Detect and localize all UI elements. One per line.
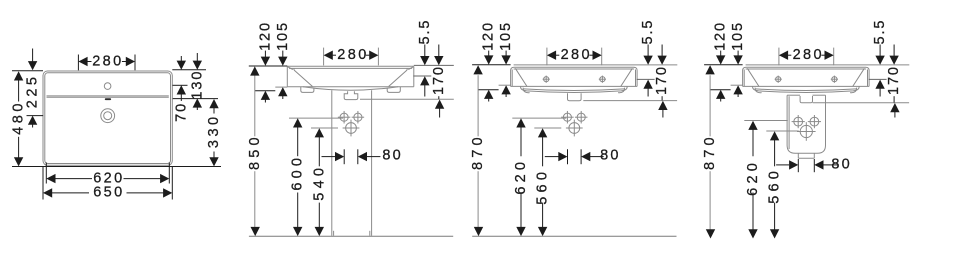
floor line <box>472 235 676 237</box>
basin right edge <box>413 66 415 86</box>
drain tab <box>800 96 812 103</box>
dim 870 line <box>709 75 711 136</box>
dim 280 extension lines <box>323 48 325 66</box>
basin skirt inner line <box>756 89 857 91</box>
wall fixing hole left <box>340 113 348 121</box>
view 1: bottom extension line <box>12 166 221 168</box>
view 1: dim 280 arrows <box>78 57 87 66</box>
siphon box drain stub <box>798 153 814 158</box>
view 1: dim 620 extension ticks <box>45 163 47 184</box>
dim 170 bottom arrow <box>438 96 440 99</box>
dim 850 line <box>254 75 256 136</box>
dim 105 bottom arrow and extension <box>278 87 287 96</box>
dim 600 extension line <box>289 117 343 119</box>
rim lower extension line <box>413 75 431 77</box>
svg-text:105: 105 <box>498 21 514 51</box>
dim 560 line and arrows <box>538 128 547 137</box>
basin skirt right lip <box>850 88 857 93</box>
dim 170 line and arrows <box>893 45 895 57</box>
drain hole <box>569 123 580 134</box>
top-left extension line <box>249 65 287 67</box>
dim 80 line and arrows <box>322 156 336 158</box>
dim 5.5 bottom arrow <box>643 80 652 89</box>
siphon box <box>787 95 825 153</box>
dim 120 line and arrows <box>264 51 266 57</box>
svg-text:870: 870 <box>470 133 486 170</box>
dim 5.5 bottom arrow <box>875 80 884 89</box>
svg-text:105: 105 <box>275 21 291 51</box>
dim 850 arrows <box>250 66 259 75</box>
dim 105 bottom arrow and extension <box>733 85 742 94</box>
view 1: faucet hole extension line <box>173 84 188 86</box>
svg-text:70: 70 <box>173 102 189 122</box>
view 1: dim 480 line and arrows <box>14 71 23 80</box>
dim 560 line and arrows <box>770 131 779 140</box>
view 1: washbasin top view outline <box>43 71 172 165</box>
dim 105 line and arrows <box>737 51 739 57</box>
basin front fixing hole right <box>832 77 837 82</box>
pedestal pipe foot lines <box>333 231 335 236</box>
basin left edge <box>286 66 288 86</box>
dim 120 bottom arrow and extension <box>484 90 493 99</box>
dim 540 line and arrows <box>315 128 324 137</box>
svg-text:620: 620 <box>745 159 761 196</box>
view 1: drain outer circle <box>101 109 115 123</box>
dim 170 line and arrows <box>661 45 663 57</box>
wall fixing hole right <box>354 113 362 121</box>
view 1: drain inner circle <box>104 112 112 120</box>
svg-text:130: 130 <box>189 70 205 100</box>
svg-text:170: 170 <box>431 65 447 95</box>
view 1: drain center extension line <box>27 115 44 117</box>
basin inner bowl walls <box>294 70 312 86</box>
svg-text:280: 280 <box>561 47 592 63</box>
svg-text:540: 540 <box>311 164 327 201</box>
dim 540 extension line <box>311 127 338 129</box>
svg-text:80: 80 <box>831 156 852 172</box>
dim 600 line and arrows <box>293 118 302 127</box>
drain tab bottom extension line <box>360 98 454 100</box>
siphon box top line <box>787 94 800 96</box>
dim 5.5 line and arrow <box>424 45 426 57</box>
dim 170 bottom arrow <box>893 96 895 102</box>
basin rim top line <box>287 65 414 67</box>
drain tab <box>568 93 582 101</box>
view 1: dim 650 extension lines <box>42 167 44 200</box>
floor line <box>249 235 453 237</box>
wall fixing hole right <box>810 117 819 126</box>
dim 80 line and arrows <box>545 156 559 158</box>
wall fixing hole right <box>577 113 585 121</box>
svg-text:280: 280 <box>793 47 824 63</box>
dim 120 bottom arrow and extension <box>261 91 270 100</box>
svg-text:480: 480 <box>11 100 27 135</box>
view 1: dim 70 line and arrows <box>180 56 182 61</box>
basin underside skirt <box>753 86 860 92</box>
dim 620 extension line <box>744 120 788 122</box>
dim 280 extension lines <box>546 48 548 66</box>
basin bottom edge <box>287 86 414 88</box>
basin skirt inner line <box>524 89 625 91</box>
basin back rim line <box>746 64 910 66</box>
svg-text:600: 600 <box>290 154 306 191</box>
basin underside curve <box>303 87 398 91</box>
basin skirt left lip <box>755 88 762 93</box>
dim 280 arrows <box>779 51 788 60</box>
dim 170 line and arrows <box>438 45 440 57</box>
svg-text:280: 280 <box>92 53 123 69</box>
top-right extension line <box>414 64 454 66</box>
basin front fixing hole right <box>600 77 605 82</box>
dim 80 extension ticks <box>343 149 345 164</box>
svg-text:170: 170 <box>886 65 902 95</box>
view 1: top-right extension line <box>172 69 206 71</box>
svg-text:120: 120 <box>481 21 497 51</box>
view 1: dim 225 line and arrows <box>32 49 34 62</box>
drain tab bottom extension line <box>583 100 677 102</box>
view 1: deck line (double) <box>47 95 169 97</box>
view 1: faucet hole <box>104 83 111 90</box>
dim 280 arrows <box>324 51 333 60</box>
dim 560 extension line <box>766 130 799 132</box>
svg-text:330: 330 <box>206 113 222 148</box>
dim 80 line and arrows <box>776 164 789 166</box>
basin left edge <box>510 71 512 87</box>
basin skirt right lip <box>618 88 625 93</box>
dim 870 arrows <box>473 65 482 74</box>
pedestal pipe right edge <box>371 90 373 236</box>
basin edge inner lines <box>511 70 513 87</box>
dim 120 bottom arrow and extension <box>716 90 725 99</box>
basin inner bowl walls <box>515 68 527 86</box>
dim 620 extension line <box>512 117 566 119</box>
drain hole <box>346 123 357 134</box>
basin left edge <box>742 71 744 87</box>
basin top corner chamfers <box>288 67 293 70</box>
dim 105 line and arrows <box>505 51 507 57</box>
basin back rim line <box>514 64 678 66</box>
basin bottom edge <box>511 85 637 87</box>
basin underside foot left <box>301 87 314 93</box>
dim 870 line <box>477 75 479 136</box>
drain hole <box>800 125 812 137</box>
svg-text:80: 80 <box>382 148 403 164</box>
basin rim top line <box>743 67 870 70</box>
dim 170 bottom arrow <box>661 96 663 100</box>
dim 105 line and arrows <box>282 51 284 57</box>
svg-text:170: 170 <box>654 65 670 95</box>
top-left extension line <box>704 64 743 66</box>
view 1: dim 620 line and arrows <box>46 174 55 183</box>
dim 5.5 line and arrow <box>879 45 881 57</box>
svg-text:560: 560 <box>767 167 783 204</box>
basin rim top line <box>511 67 637 70</box>
svg-text:560: 560 <box>535 168 551 205</box>
dim 620 line and arrows <box>516 118 525 127</box>
view 1: dim 650 line and arrows <box>43 188 52 197</box>
basin underside skirt <box>521 86 628 92</box>
drain tab bottom extension line <box>813 102 909 104</box>
svg-text:5.5: 5.5 <box>417 19 433 45</box>
dim 5.5 bottom arrow <box>420 76 429 85</box>
basin front fixing hole left <box>776 77 781 82</box>
svg-text:5.5: 5.5 <box>640 19 656 45</box>
view 1: overflow slot <box>105 98 111 100</box>
basin skirt left lip <box>523 88 530 93</box>
svg-text:620: 620 <box>513 158 529 195</box>
siphon box inner line <box>788 96 790 149</box>
top-left extension line <box>472 64 511 66</box>
view 1: dim 330 line and arrows <box>209 99 218 108</box>
view 1: dim 280 extension lines <box>77 55 79 71</box>
svg-text:870: 870 <box>702 133 718 170</box>
svg-text:225: 225 <box>25 73 41 108</box>
view 1: top-left extension line <box>12 70 43 72</box>
basin inner bowl walls <box>747 68 759 86</box>
svg-text:105: 105 <box>730 21 746 51</box>
basin bottom edge <box>743 85 870 87</box>
svg-text:120: 120 <box>713 21 729 51</box>
svg-text:850: 850 <box>247 133 263 170</box>
wall fixing hole left <box>563 113 571 121</box>
drain tab <box>344 91 358 99</box>
svg-text:650: 650 <box>93 185 124 201</box>
dim 120 line and arrows <box>488 51 490 57</box>
rim lower extension line <box>869 78 887 80</box>
svg-text:120: 120 <box>257 21 273 51</box>
dim 120 line and arrows <box>720 51 722 57</box>
basin edge inner lines <box>743 70 745 87</box>
view 1: dim 130 line and arrows <box>196 53 198 61</box>
dim 105 bottom arrow and extension <box>501 85 510 94</box>
basin front fixing hole left <box>544 77 549 82</box>
view 1: deck extension line <box>173 98 218 100</box>
basin right edge <box>868 71 870 87</box>
rim lower extension line <box>637 78 655 80</box>
basin right edge <box>636 71 638 87</box>
dim 5.5 line and arrow <box>647 45 649 57</box>
dim 870 arrows <box>705 65 714 74</box>
dim 620 line and arrows <box>748 121 757 130</box>
svg-text:280: 280 <box>337 47 368 63</box>
svg-text:5.5: 5.5 <box>872 19 888 45</box>
dim 80 extension ticks <box>797 159 799 172</box>
basin underside foot right <box>387 87 400 93</box>
dim 560 extension line <box>534 127 561 129</box>
dim 80 extension ticks <box>567 149 569 164</box>
svg-text:80: 80 <box>600 148 621 164</box>
view 1: inner rim line <box>45 73 171 164</box>
pedestal pipe left edge <box>331 90 333 236</box>
dim 280 extension lines <box>778 48 780 66</box>
dim 280 arrows <box>547 51 556 60</box>
wall fixing hole left <box>794 117 803 126</box>
